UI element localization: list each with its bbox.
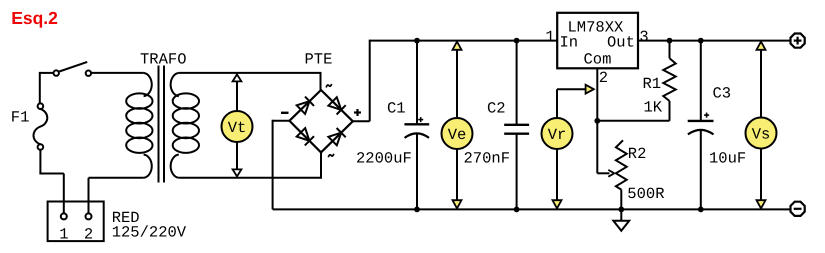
svg-text:Com: Com — [584, 50, 612, 68]
svg-text:1: 1 — [545, 28, 554, 46]
svg-text:125/220V: 125/220V — [112, 224, 187, 242]
svg-text:C1: C1 — [387, 100, 406, 118]
svg-text:In: In — [560, 33, 579, 51]
svg-text:1K: 1K — [644, 98, 663, 116]
svg-text:2: 2 — [84, 225, 93, 243]
svg-text:1: 1 — [59, 225, 68, 243]
svg-text:C3: C3 — [713, 85, 732, 103]
svg-text:F1: F1 — [11, 109, 30, 127]
svg-text:270nF: 270nF — [464, 150, 511, 168]
svg-text:PTE: PTE — [305, 51, 333, 69]
svg-text:500R: 500R — [627, 185, 664, 203]
svg-text:C2: C2 — [487, 100, 506, 118]
svg-text:TRAFO: TRAFO — [140, 51, 187, 69]
svg-text:Ve: Ve — [448, 126, 467, 144]
svg-text:2: 2 — [599, 69, 608, 87]
svg-text:Vs: Vs — [752, 126, 771, 144]
svg-text:Out: Out — [607, 33, 635, 51]
svg-text:3: 3 — [639, 28, 648, 46]
svg-text:10uF: 10uF — [709, 150, 746, 168]
svg-text:2200uF: 2200uF — [356, 150, 412, 168]
svg-text:Esq.2: Esq.2 — [11, 8, 58, 28]
svg-text:Vt: Vt — [228, 119, 247, 137]
svg-text:Vr: Vr — [548, 126, 567, 144]
svg-text:R2: R2 — [628, 145, 647, 163]
svg-text:R1: R1 — [643, 75, 662, 93]
